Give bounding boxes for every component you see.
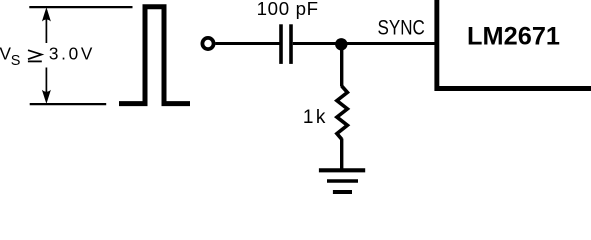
svg-text:3.0V: 3.0V bbox=[49, 43, 93, 63]
pulse waveform bbox=[119, 7, 190, 104]
wire node to resistor bbox=[340, 44, 343, 86]
input terminal bbox=[202, 38, 213, 49]
svg-text:SYNC: SYNC bbox=[378, 15, 425, 39]
wire resistor to ground bbox=[340, 139, 343, 171]
waveform high reference line bbox=[29, 6, 132, 8]
node junction bbox=[335, 38, 347, 50]
svg-text:V: V bbox=[0, 43, 12, 63]
svg-text:1k: 1k bbox=[303, 107, 326, 128]
svg-text:LM2671: LM2671 bbox=[467, 23, 560, 51]
amplitude arrow down bbox=[42, 68, 51, 104]
wire capacitor to IC bbox=[293, 42, 437, 45]
resistor 1k bbox=[337, 86, 348, 139]
waveform low reference line bbox=[30, 103, 107, 105]
svg-text:100 pF: 100 pF bbox=[257, 0, 319, 19]
ground bbox=[319, 170, 365, 194]
capacitor 100 pF bbox=[281, 24, 291, 64]
IC U1 box (partial) bbox=[437, 0, 591, 89]
svg-text:S: S bbox=[11, 53, 21, 69]
wire terminal to capacitor bbox=[215, 42, 279, 45]
amplitude arrow up bbox=[42, 7, 51, 43]
label VS >= 3.0V bbox=[0, 43, 93, 68]
